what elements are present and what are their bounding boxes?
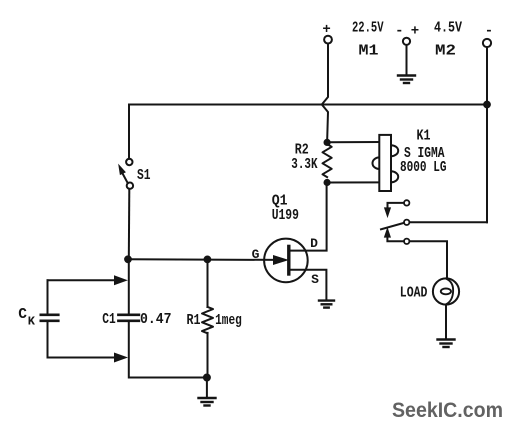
svg-text:K1: K1 [417,129,431,145]
relay K1 coil loops [391,145,398,156]
wire T1 down to top rail with kink [322,44,328,143]
resistor R2 [323,144,332,177]
wire rail down to S1 [128,105,130,159]
svg-text:-: - [395,24,403,40]
node gate junction [125,256,132,263]
resistor R1 [202,307,213,333]
terminal T1 (+, battery M1 plus) [324,36,332,44]
svg-text:+: + [322,22,330,38]
wire R1 top [207,259,209,307]
relay contact top (NC) [404,200,409,205]
wire lamp to ground [445,305,447,338]
svg-text:S1: S1 [137,168,151,184]
svg-text:4.5V: 4.5V [434,21,462,37]
wire R2 bottom to relay coil [327,181,390,183]
svg-text:K: K [28,315,36,329]
ground (bottom) [199,398,216,406]
node R1 top junction [204,256,211,263]
wire gate node down to C1 [128,259,130,313]
transistor Q1 drain lead [290,184,327,251]
wire C1 down to bottom rail [129,322,207,378]
svg-text:S: S [311,272,319,287]
capacitor CK left vertical top [47,280,49,313]
transistor Q1 channel bar [287,246,290,274]
ground (source) [319,301,334,308]
wire T3 down [486,47,488,104]
lamp LOAD [433,278,459,304]
svg-text:8000 LG: 8000 LG [400,160,447,176]
svg-text:R2: R2 [295,143,309,159]
svg-text:0.47: 0.47 [140,312,172,328]
wire junction to ground [206,378,208,398]
svg-text:LOAD: LOAD [400,286,428,302]
wire S1 to gate node [128,189,131,259]
svg-text:D: D [310,236,318,251]
svg-text:U199: U199 [272,208,299,224]
svg-text:C: C [18,307,27,323]
terminal T2 (M1 minus / M2 plus common) [403,38,410,45]
node R2 top [324,139,330,145]
relay contact middle (common) [404,220,409,225]
node right rail junction [484,101,491,108]
ground (load) [438,340,455,348]
relay contact bottom (NO) [404,239,409,244]
node R2 bottom [324,179,330,185]
switch S1 [126,159,132,165]
svg-text:G: G [252,247,260,262]
relay armature blade [381,223,404,229]
wire R1 bottom [207,333,209,378]
svg-text:M1: M1 [359,44,379,60]
relay K1 core [379,135,391,191]
wire bottom contact to lamp [410,241,447,278]
transistor Q1 source lead [290,270,326,300]
node bottom rail junction [203,374,210,381]
svg-text:R1: R1 [187,313,201,329]
svg-text:3.3K: 3.3K [291,157,317,173]
transistor Q1 gate arrow [274,256,288,265]
capacitor CK plates [41,315,59,321]
svg-text:1meg: 1meg [215,313,242,329]
wire T2 to ground [406,45,408,75]
svg-text:C1: C1 [102,312,116,328]
svg-text:22.5V: 22.5V [352,21,384,37]
capacitor CK left vertical bottom [47,322,49,358]
capacitor CK link top [48,279,118,281]
capacitor CK link bottom [48,357,118,359]
ground (top common) [398,76,415,84]
wire top rail [129,104,487,106]
svg-text:+: + [411,24,419,40]
capacitor C1 plates [118,315,138,321]
terminal T3 (M2 minus) [483,39,491,47]
wire middle contact to right rail [410,221,487,223]
svg-text:-: - [485,24,493,40]
wire right side down to relay contact [486,105,488,223]
transistor Q1 circle [264,239,308,283]
wire R2 top to relay coil [327,141,390,143]
wire gate bus [129,258,276,261]
svg-text:SeekIC.com: SeekIC.com [392,399,503,422]
svg-text:M2: M2 [435,44,456,60]
